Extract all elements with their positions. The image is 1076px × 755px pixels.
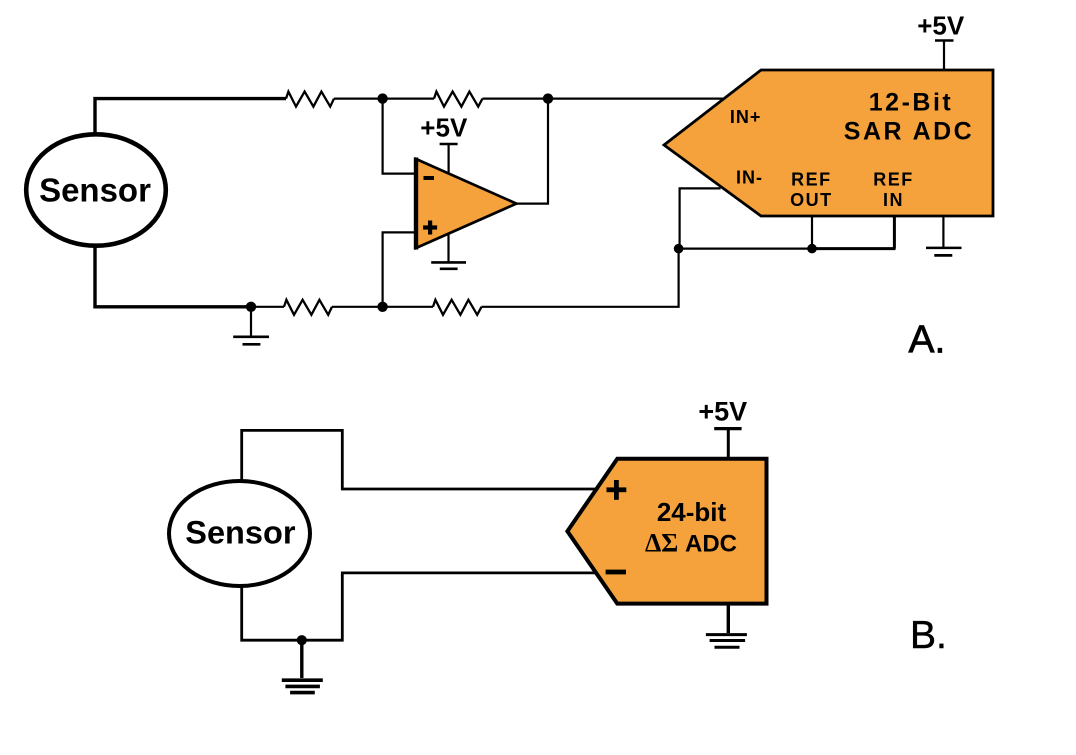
wire op-amp output to feedback node N2 bbox=[516, 99, 548, 204]
svg-text:+5V: +5V bbox=[917, 11, 965, 41]
wire sensor B bottom lead bbox=[242, 573, 597, 640]
resistor R2 (feedback, top) bbox=[434, 92, 483, 107]
node G2 junction dot (sensor B ground tap) bbox=[297, 635, 307, 645]
svg-text:+5V: +5V bbox=[420, 113, 468, 143]
op-amp U1 body (triangle) bbox=[416, 159, 516, 248]
svg-text:OUT: OUT bbox=[790, 190, 833, 210]
svg-text:24-bit: 24-bit bbox=[657, 497, 727, 527]
supply bar and lead (ADC B) bbox=[714, 427, 741, 430]
sensor (circuit A) bbox=[26, 134, 166, 245]
svg-text:Sensor: Sensor bbox=[185, 514, 296, 550]
wire sensor A bottom lead bbox=[95, 247, 251, 307]
ADC U3 body (pentagon) bbox=[567, 459, 766, 604]
svg-text:IN+: IN+ bbox=[730, 107, 762, 127]
op-amp U1 bbox=[416, 158, 516, 250]
svg-text:Sensor: Sensor bbox=[39, 171, 151, 208]
wire ground node to R3 bbox=[251, 306, 284, 308]
wire sensor B top lead to ADC + input bbox=[242, 430, 596, 489]
supply bar and lead (ADC A) bbox=[935, 39, 954, 42]
pin marker + (ADC U3) bbox=[614, 480, 619, 500]
wire sensor A top lead bbox=[95, 99, 286, 133]
svg-text:IN: IN bbox=[883, 190, 904, 210]
svg-text:SAR ADC: SAR ADC bbox=[844, 118, 974, 146]
ADC U3: 24-bit Delta-Sigma ADC bbox=[567, 459, 766, 604]
pin marker - (ADC U3) bbox=[606, 570, 626, 575]
node N2 junction dot (op-amp output feedback) bbox=[543, 93, 553, 103]
wire node N1 down to op-amp inverting input bbox=[383, 99, 416, 174]
+5V supply symbol (op-amp) bbox=[420, 113, 468, 175]
resistor R4 (bottom, to reference) bbox=[433, 300, 482, 315]
svg-text:+5V: +5V bbox=[698, 397, 747, 427]
svg-text:B.: B. bbox=[910, 614, 947, 657]
+5V supply symbol (ADC A) bbox=[917, 11, 965, 71]
ADC U2: 12-Bit SAR ADC bbox=[664, 70, 993, 216]
node N5 junction dot (REF OUT) bbox=[807, 244, 817, 254]
wire REF rail N4 to REF OUT to REF IN bbox=[679, 248, 812, 250]
wire R2 to node N2 to ADC IN+ bbox=[483, 97, 724, 99]
sensor (circuit B) bbox=[169, 481, 310, 586]
svg-text:A.: A. bbox=[909, 319, 946, 362]
ground (op-amp) bbox=[431, 233, 466, 269]
resistor R1 (top, sensor+ to op-amp inverting node) bbox=[286, 92, 334, 107]
wire R4 to IN- / REF node bbox=[482, 249, 679, 307]
REF OUT pin wire bbox=[811, 216, 813, 249]
svg-text:REF: REF bbox=[791, 170, 832, 190]
svg-text:REF: REF bbox=[873, 170, 914, 190]
svg-text:ΔΣ ADC: ΔΣ ADC bbox=[645, 528, 737, 557]
svg-text:12-Bit: 12-Bit bbox=[869, 89, 953, 117]
node N4 junction dot (IN- / REF rail) bbox=[674, 244, 684, 254]
ground (ADC A) bbox=[926, 216, 962, 255]
svg-text:IN-: IN- bbox=[736, 168, 763, 188]
ground (sensor A bottom rail) bbox=[233, 307, 269, 345]
wire R3 to node N3 to R4 bbox=[332, 306, 433, 308]
ADC U2 body (pentagon) bbox=[664, 70, 993, 216]
wire R1 to node N1 to R2 bbox=[334, 97, 434, 99]
node G1 junction dot (bottom rail ground tap) bbox=[246, 302, 256, 312]
op-amp U1 non-inverting input marker "+" bbox=[428, 221, 432, 235]
ground (sensor B) bbox=[282, 640, 323, 692]
node N3 junction dot (op-amp + input tap) bbox=[377, 302, 387, 312]
resistor R3 (bottom, sensor- side) bbox=[284, 300, 332, 315]
wire op-amp non-inverting input down to bottom rail bbox=[383, 232, 416, 306]
sensor body (ellipse, circuit B) bbox=[169, 481, 310, 586]
op-amp U1 inverting input marker "-" bbox=[424, 176, 435, 180]
+5V supply symbol (ADC B) bbox=[698, 397, 747, 459]
supply bar and lead (op-amp) bbox=[440, 143, 458, 146]
REF IN pin wire bbox=[893, 216, 896, 249]
node N1 junction dot (top rail, op-amp - input) bbox=[377, 93, 387, 103]
wire IN- pin down to node N4 bbox=[680, 188, 721, 248]
sensor body (ellipse) bbox=[26, 134, 166, 245]
ground (ADC B) bbox=[706, 604, 747, 648]
